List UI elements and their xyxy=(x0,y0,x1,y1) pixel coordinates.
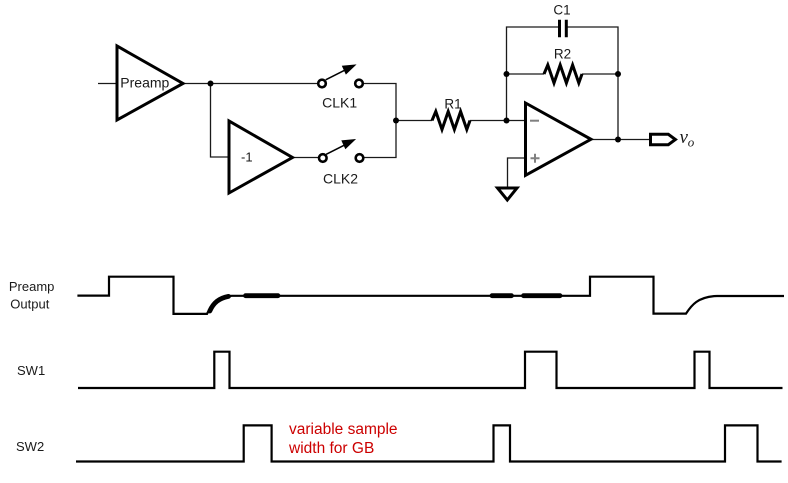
svg-text:width for GB: width for GB xyxy=(288,440,374,457)
svg-text:Preamp: Preamp xyxy=(9,279,55,294)
svg-text:SW1: SW1 xyxy=(17,363,45,378)
svg-text:Output: Output xyxy=(10,297,49,312)
svg-text:Preamp: Preamp xyxy=(120,75,169,91)
svg-text:variable sample: variable sample xyxy=(289,421,398,438)
svg-text:CLK1: CLK1 xyxy=(322,95,357,111)
svg-text:-1: -1 xyxy=(241,149,253,164)
svg-text:o: o xyxy=(688,135,695,150)
svg-text:CLK2: CLK2 xyxy=(323,170,358,186)
svg-text:C1: C1 xyxy=(553,3,570,18)
svg-text:R2: R2 xyxy=(554,47,571,62)
svg-text:R1: R1 xyxy=(444,97,461,112)
svg-text:SW2: SW2 xyxy=(16,439,44,454)
